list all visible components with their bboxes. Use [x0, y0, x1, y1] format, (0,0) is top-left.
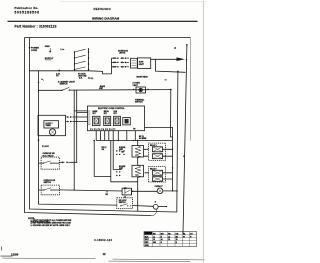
node L2: [186, 44, 188, 46]
dashed thermostat box: [39, 153, 60, 169]
broil element: [132, 146, 144, 159]
surface switch bank: [74, 48, 89, 70]
svg-text:TIMER: TIMER: [46, 125, 52, 127]
svg-text:12: 12: [168, 239, 170, 241]
svg-text:SWITCH: SWITCH: [44, 182, 52, 184]
svg-text:GA WIRE: GA WIRE: [139, 137, 147, 140]
svg-text:L2: L2: [168, 236, 170, 238]
svg-text:FOR THE RATING ONLY: FOR THE RATING ONLY: [31, 220, 51, 223]
wire AR bus: [30, 70, 89, 72]
wire mid bus: [69, 89, 171, 92]
svg-text:SWITCH: SWITCH: [135, 101, 143, 103]
wire left bus L1: [30, 38, 178, 213]
svg-text:AW: AW: [153, 241, 156, 244]
wire element verticals: [137, 141, 139, 212]
wire P1 drop long: [94, 141, 111, 177]
EOC relay 2: [104, 111, 111, 126]
wire latch: [133, 205, 154, 208]
svg-text:UNITS: UNITS: [119, 53, 126, 55]
wire pin8 drop: [134, 131, 136, 141]
ground lead: [49, 48, 51, 51]
bake element: [132, 165, 144, 178]
oven light lamp: [157, 188, 163, 194]
svg-text:GRN: GRN: [145, 245, 150, 247]
footer rule: [3, 258, 205, 261]
wire left bus 2: [39, 71, 117, 206]
svg-text:SWITCH: SWITCH: [119, 202, 126, 204]
svg-text:VENT: VENT: [133, 85, 139, 87]
wire right frame faint: [190, 38, 192, 141]
svg-text:10: 10: [176, 239, 178, 241]
relay assembly lower: [145, 167, 173, 183]
svg-text:3-16002-123: 3-16002-123: [94, 239, 112, 242]
svg-text:L2: L2: [174, 47, 176, 49]
fuse link: [41, 79, 44, 81]
latch motor: [153, 204, 158, 209]
svg-text:RIGHT REAR: RIGHT REAR: [137, 76, 149, 79]
svg-text:SUR: SUR: [139, 61, 144, 63]
thermostat label: [38, 139, 40, 141]
connector arrows thermostat: [59, 161, 62, 163]
wire EOC right to relay column: [145, 128, 173, 191]
clock box: [38, 115, 66, 135]
wire bake feed: [111, 172, 138, 182]
svg-text:FEF314CC: FEF314CC: [94, 7, 112, 11]
nodes right column: [172, 149, 173, 150]
EOC relay 1: [93, 110, 101, 126]
svg-text:SWITCH: SWITCH: [60, 83, 68, 85]
L2 terminal arrow: [177, 57, 185, 61]
wire clock to EOC 1: [66, 116, 88, 118]
EOC left pin strip: [88, 111, 90, 125]
oven light switch: [122, 188, 157, 199]
svg-text:12: 12: [103, 252, 107, 256]
latch switch dashed: [117, 198, 133, 209]
wire top bus L2: [25, 37, 191, 39]
EOC transformer: [123, 118, 131, 125]
svg-text:16: 16: [153, 239, 155, 241]
splice tick: [106, 191, 108, 193]
svg-text:P8: P8: [133, 129, 135, 131]
switch oven light: [39, 89, 63, 91]
svg-text:3. GROUND A/R SIZE BY APPR. WI: 3. GROUND A/R SIZE BY APPR. WIRE ONLY: [31, 224, 71, 227]
connector dots lower: [116, 171, 120, 176]
nodes on lower bus: [118, 140, 119, 141]
connector pair 2: [67, 121, 72, 123]
notes block: [28, 218, 72, 227]
svg-text:14: 14: [161, 238, 163, 241]
surface unit receptacle box: [131, 58, 138, 68]
node bus2 top: [38, 82, 39, 83]
tick label: [164, 79, 167, 81]
svg-text:Part Number : 316002123: Part Number : 316002123: [15, 25, 57, 29]
node power in: [29, 47, 31, 49]
svg-text:UNIT: UNIT: [139, 64, 145, 66]
scan edge top: [61, 1, 207, 3]
connector dots mid: [116, 150, 125, 155]
EOC pin drops: [96, 131, 127, 141]
svg-text:WIRING DIAGRAM: WIRING DIAGRAM: [92, 17, 120, 21]
wire right bus N: [183, 45, 187, 234]
EOC box: [88, 106, 145, 131]
wire surface to L2: [151, 58, 177, 60]
svg-text:P1 P2 P3 P4 P5 P6 P7: P1 P2 P3 P4 P5 P6 P7: [90, 128, 115, 131]
dashed door switch box: [39, 180, 60, 195]
svg-text:A.R.: A.R.: [79, 76, 83, 79]
wire lamp to bus: [163, 190, 177, 192]
svg-text:L1: L1: [153, 236, 155, 238]
wire left frame N: [25, 38, 152, 216]
thermal switch TOD: [133, 83, 149, 104]
scan mark bottom left: [1, 247, 13, 257]
header rule: [8, 20, 198, 22]
svg-text:Publication No.: Publication No.: [15, 6, 39, 10]
relay assembly upper: [144, 143, 173, 160]
svg-text:ELECTRIC OVEN CONTROL: ELECTRIC OVEN CONTROL: [98, 108, 125, 110]
wire vent drop A: [171, 90, 173, 137]
scan edge right: [202, 1, 204, 263]
wire right drop: [177, 71, 178, 212]
surface unit box: [138, 58, 151, 69]
wire clock to EOC 2: [66, 121, 88, 123]
svg-text:5995288506: 5995288506: [15, 10, 40, 14]
wire lower bus: [96, 140, 172, 142]
node AR: [58, 70, 60, 72]
surface receptacle matrix: [112, 57, 129, 74]
wire pair to bake: [111, 141, 122, 172]
svg-text:GND: GND: [45, 46, 50, 48]
svg-text:P LOCK: P LOCK: [42, 146, 49, 148]
EOC relay 3: [114, 111, 121, 126]
connector pair 1: [67, 116, 72, 118]
svg-text:CORD: CORD: [31, 50, 38, 52]
harness verticals: [74, 90, 87, 113]
legend table: [144, 232, 197, 248]
svg-text:OVEN LT: OVEN LT: [155, 186, 164, 188]
svg-text:TO L1: TO L1: [88, 78, 93, 80]
wire door sw to light: [60, 190, 123, 191]
